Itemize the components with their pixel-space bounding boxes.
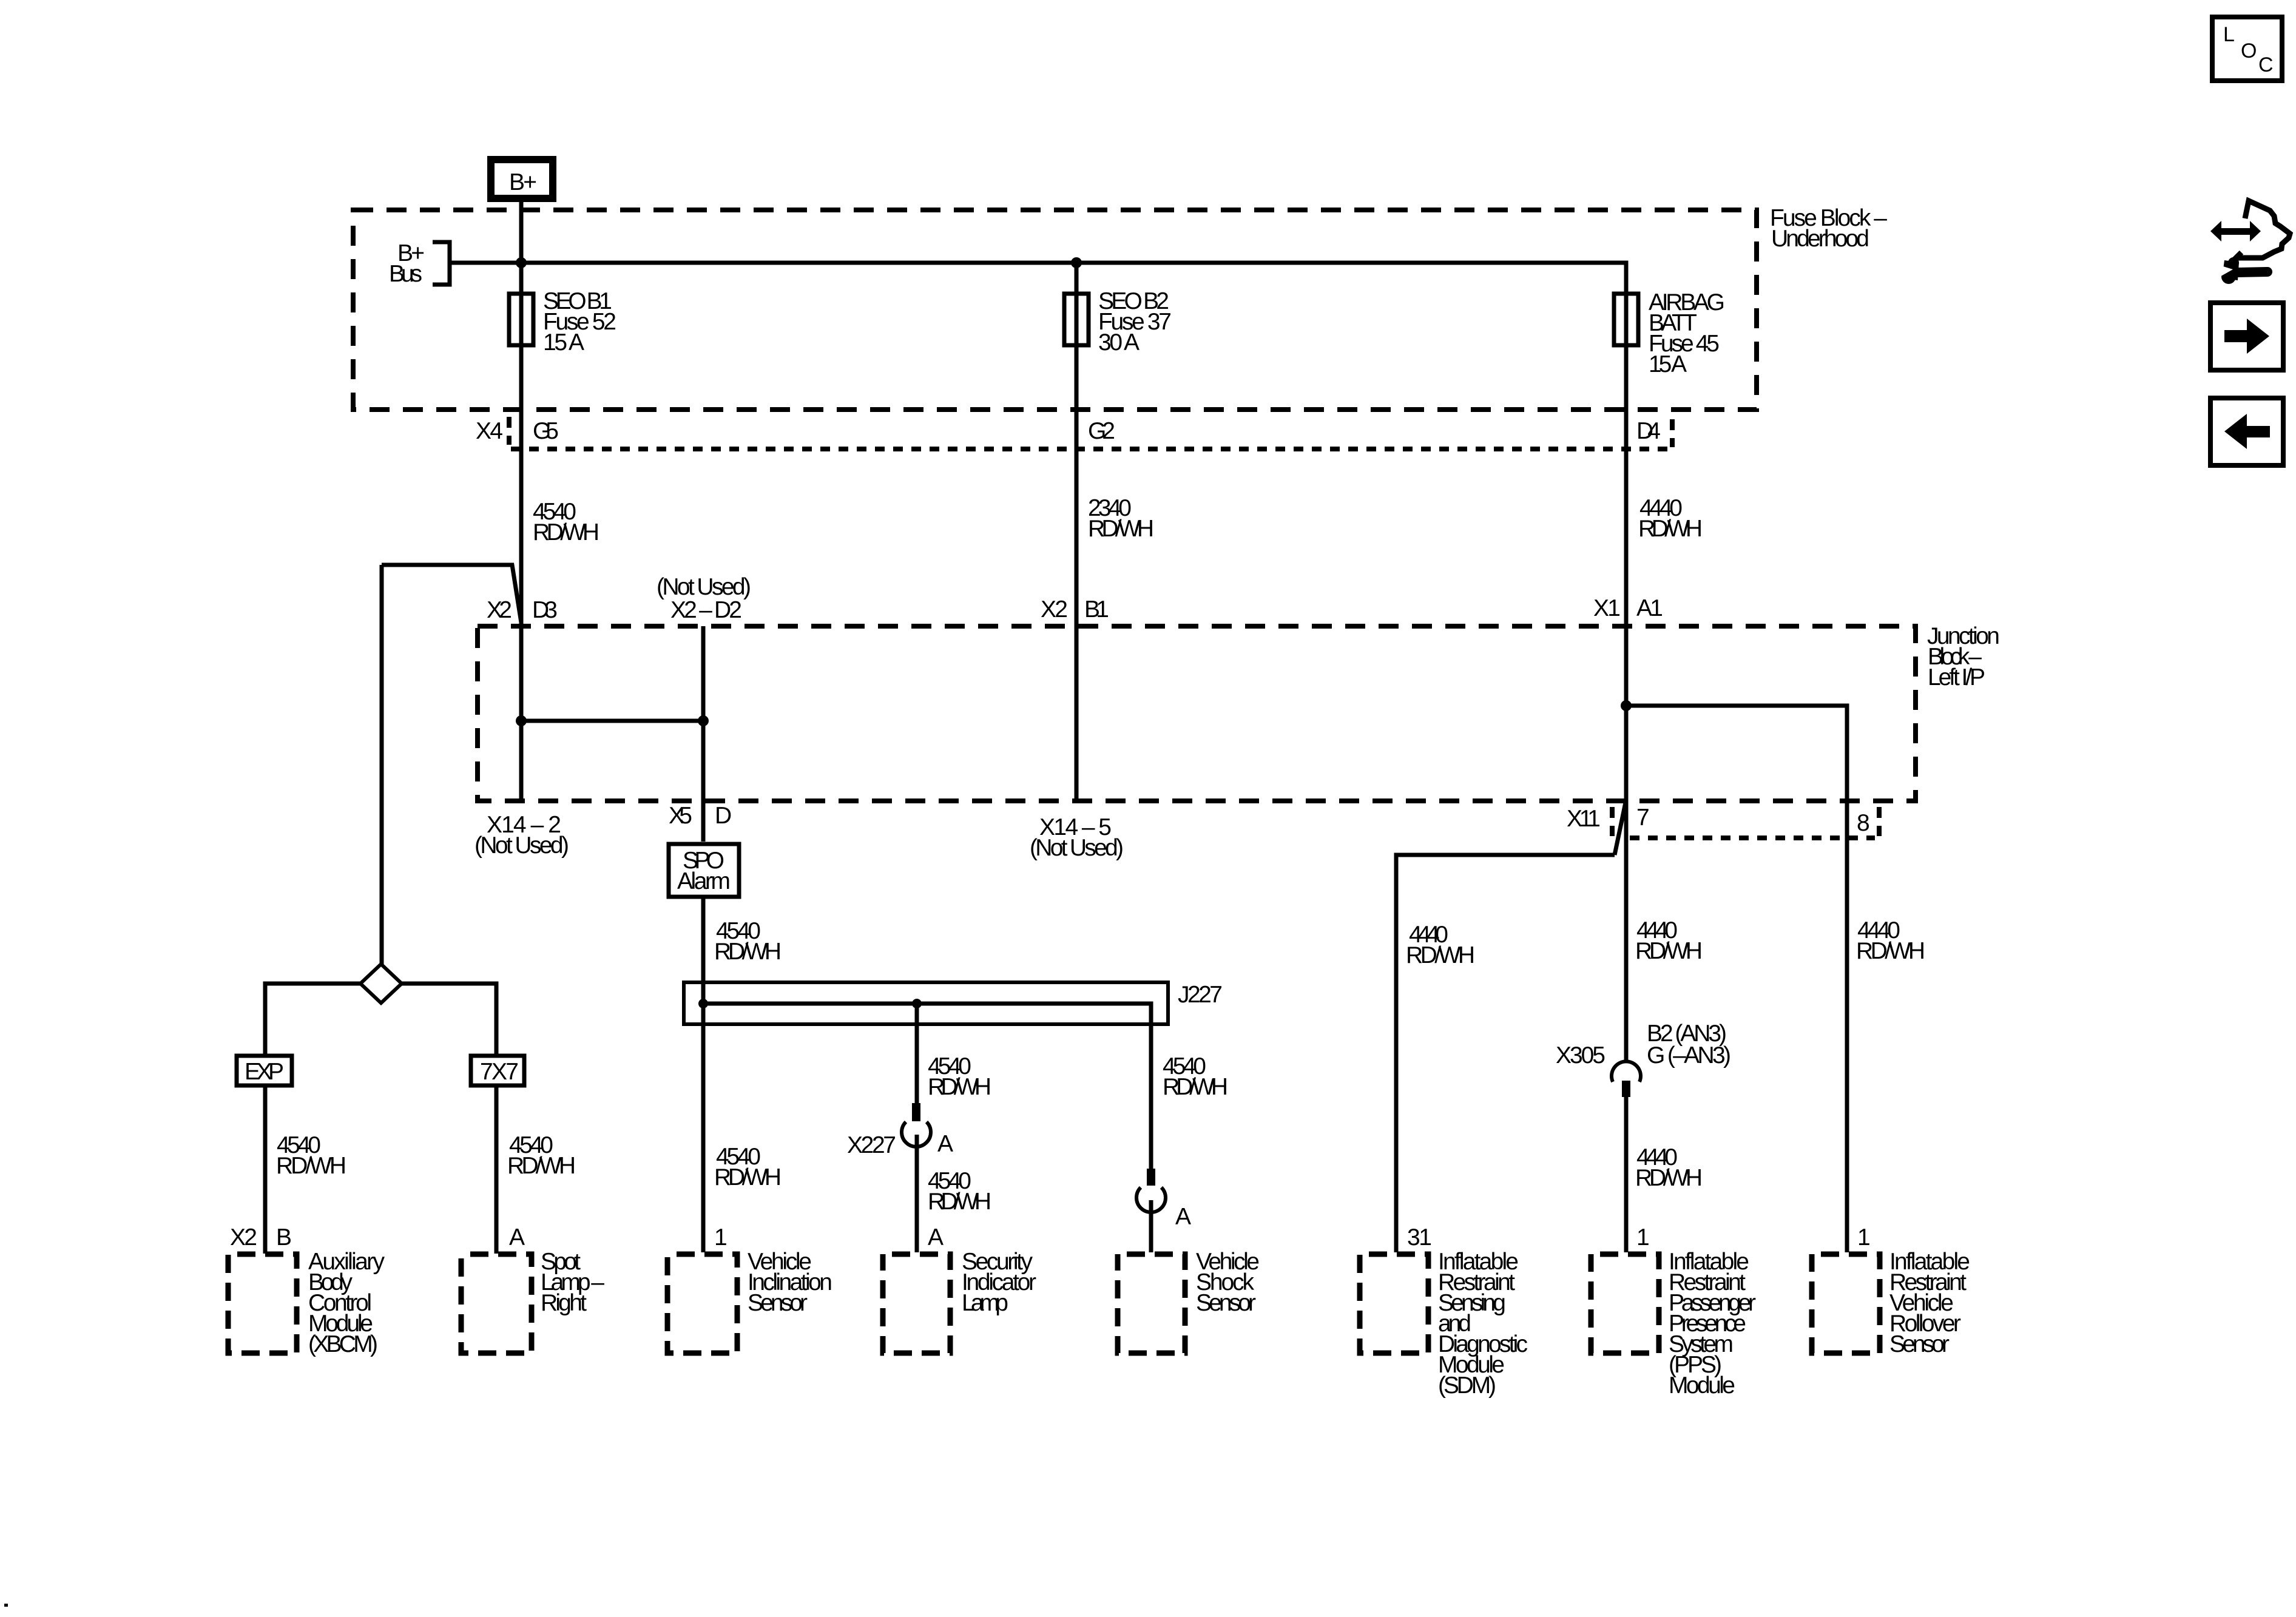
svg-text:1: 1 <box>1857 1224 1871 1251</box>
svg-text:15 A: 15 A <box>1649 351 1687 377</box>
svg-text:RD/WH: RD/WH <box>1406 942 1475 968</box>
svg-text:RD/WH: RD/WH <box>1638 516 1703 542</box>
svg-text:(Not Used): (Not Used) <box>657 574 751 600</box>
svg-text:Right: Right <box>541 1290 587 1316</box>
svg-text:Sensor: Sensor <box>1889 1331 1950 1357</box>
svg-text:L: L <box>2223 23 2235 46</box>
svg-text:A: A <box>1175 1204 1191 1230</box>
svg-text:X4: X4 <box>476 418 503 444</box>
svg-text:X11: X11 <box>1567 806 1601 832</box>
svg-text:RD/WH: RD/WH <box>276 1153 346 1179</box>
svg-text:1: 1 <box>1636 1224 1650 1251</box>
svg-text:D3: D3 <box>532 597 558 623</box>
svg-text:X2: X2 <box>230 1224 257 1251</box>
svg-text:Alarm: Alarm <box>677 868 731 894</box>
svg-text:A: A <box>928 1224 944 1251</box>
svg-text:O: O <box>2241 39 2257 62</box>
svg-text:B+: B+ <box>509 169 537 195</box>
svg-text:X2: X2 <box>487 597 512 623</box>
svg-text:G2: G2 <box>1088 418 1115 444</box>
svg-text:X305: X305 <box>1556 1042 1606 1068</box>
svg-text:31: 31 <box>1407 1224 1432 1251</box>
svg-text:X5: X5 <box>669 803 692 829</box>
svg-text:8: 8 <box>1857 810 1870 836</box>
svg-text:B1: B1 <box>1084 596 1109 623</box>
svg-text:(SDM): (SDM) <box>1438 1372 1496 1399</box>
svg-text:X2: X2 <box>1041 596 1068 623</box>
svg-text:Left I/P: Left I/P <box>1928 664 1985 690</box>
svg-text:15 A: 15 A <box>543 329 584 356</box>
svg-text:D4: D4 <box>1636 418 1661 444</box>
svg-text:EXP: EXP <box>245 1059 284 1085</box>
svg-text:Sensor: Sensor <box>1196 1290 1256 1316</box>
svg-text:X227: X227 <box>847 1132 896 1158</box>
svg-text:RD/WH: RD/WH <box>1635 938 1703 964</box>
svg-text:G5: G5 <box>533 418 559 444</box>
svg-text:J227: J227 <box>1178 982 1223 1008</box>
svg-text:RD/WH: RD/WH <box>928 1074 991 1100</box>
svg-text:RD/WH: RD/WH <box>928 1189 991 1215</box>
svg-text:Sensor: Sensor <box>748 1290 808 1316</box>
svg-text:RD/WH: RD/WH <box>714 939 782 965</box>
svg-text:G (–AN3): G (–AN3) <box>1647 1042 1731 1068</box>
svg-text:X1: X1 <box>1593 595 1621 621</box>
svg-text:X2 – D2: X2 – D2 <box>670 597 742 623</box>
svg-text:(XBCM): (XBCM) <box>308 1331 378 1357</box>
svg-text:D: D <box>715 803 732 829</box>
svg-text:(Not Used): (Not Used) <box>474 832 569 859</box>
svg-text:Module: Module <box>1669 1372 1735 1399</box>
svg-text:RD/WH: RD/WH <box>714 1164 782 1190</box>
svg-text:C: C <box>2258 53 2274 76</box>
svg-text:RD/WH: RD/WH <box>1088 516 1154 542</box>
svg-text:7: 7 <box>1636 805 1650 831</box>
svg-text:Underhood: Underhood <box>1771 226 1869 252</box>
svg-text:A: A <box>509 1224 525 1251</box>
svg-text:RD/WH: RD/WH <box>533 519 599 545</box>
svg-text:7X7: 7X7 <box>480 1059 519 1085</box>
svg-text:RD/WH: RD/WH <box>1635 1165 1703 1191</box>
svg-text:1: 1 <box>714 1224 728 1251</box>
svg-text:RD/WH: RD/WH <box>1856 938 1925 964</box>
svg-text:B: B <box>276 1224 292 1251</box>
svg-text:RD/WH: RD/WH <box>1163 1074 1228 1100</box>
svg-text:(Not Used): (Not Used) <box>1030 835 1124 861</box>
svg-text:Bus: Bus <box>389 261 422 287</box>
svg-text:RD/WH: RD/WH <box>507 1153 576 1179</box>
svg-text:30 A: 30 A <box>1098 329 1140 356</box>
svg-text:A1: A1 <box>1636 595 1663 621</box>
svg-text:A: A <box>937 1131 953 1157</box>
svg-text:Lamp: Lamp <box>962 1290 1008 1316</box>
